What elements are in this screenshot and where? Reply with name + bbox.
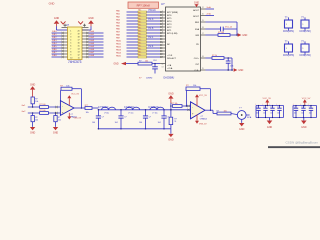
svg-text:GND: GND: [30, 83, 36, 86]
filter inductor L1: [102, 107, 116, 114]
svg-text:R1k: R1k: [138, 52, 141, 54]
svg-text:8: 8: [162, 32, 163, 34]
power port GND decoupling bank A: [267, 118, 273, 129]
resistor R inverting input stage2: [172, 103, 191, 108]
svg-text:51: 51: [174, 121, 176, 123]
svg-text:9: 9: [162, 43, 163, 45]
filter shunt capacitor 2: [115, 109, 127, 130]
svg-text:2mA: 2mA: [207, 12, 212, 15]
svg-text:L? 10u: L? 10u: [104, 112, 109, 114]
U2 right pin row 7 wire to ground: [201, 68, 234, 71]
decoupling bank B rails: [293, 105, 317, 118]
svg-text:C?153C: C?153C: [124, 106, 135, 109]
svg-text:22: 22: [202, 7, 204, 9]
svg-text:U?: U?: [161, 2, 165, 6]
svg-text:CON(CH4): CON(CH4): [299, 55, 310, 57]
designator U1: [66, 24, 70, 27]
svg-text:GND: GND: [30, 132, 36, 135]
svg-text:C?: C?: [102, 117, 104, 119]
svg-text:RP? 10Kx8: RP? 10Kx8: [137, 4, 151, 8]
resistor R 1k on U2 pin row 6: [201, 55, 233, 70]
svg-text:104: 104: [256, 113, 259, 115]
capacitor on U2 row 6 node: [226, 57, 234, 70]
svg-text:GND: GND: [88, 17, 94, 20]
resistor R to ground line1: [31, 113, 38, 122]
pin cross marks right of U1: [82, 24, 89, 28]
svg-text:DB7: DB7: [52, 52, 57, 54]
DAC U2 body: [166, 7, 201, 71]
svg-text:10k: 10k: [86, 112, 89, 114]
svg-text:104: 104: [270, 113, 273, 115]
filter inductor L3: [150, 107, 164, 114]
svg-text:DIN+EXT: DIN+EXT: [167, 58, 177, 60]
decoupling capacitor B2: [300, 104, 306, 119]
RCA output jack T1: [237, 107, 252, 119]
svg-text:C?: C?: [124, 117, 126, 119]
svg-text:BIT7 (MSB): BIT7 (MSB): [167, 12, 178, 14]
svg-text:104: 104: [158, 122, 161, 124]
svg-text:3: 3: [162, 17, 163, 19]
resistor R on U2 pin row 5: [201, 32, 238, 37]
svg-text:PA10: PA10: [116, 39, 122, 42]
svg-text:6: 6: [70, 46, 71, 48]
svg-text:R1k: R1k: [138, 49, 141, 51]
svg-text:DB1: DB1: [52, 34, 57, 36]
svg-text:18: 18: [77, 37, 79, 39]
svg-text:+CLK: +CLK: [167, 55, 173, 57]
svg-text:104: 104: [309, 113, 312, 115]
resistor R bias vertical: [31, 97, 38, 107]
svg-text:L? 10u: L? 10u: [128, 112, 133, 114]
svg-text:104: 104: [92, 122, 95, 124]
svg-text:104: 104: [230, 65, 233, 67]
U1 right pin wire row 8: [82, 51, 104, 55]
svg-text:11: 11: [162, 57, 164, 59]
svg-text:7: 7: [162, 29, 163, 31]
svg-text:104: 104: [294, 113, 297, 115]
net label CLK: [153, 60, 158, 62]
svg-text:DA4: DA4: [90, 42, 95, 45]
svg-text:+CLA: +CLA: [167, 67, 173, 70]
svg-text:P2.1: P2.1: [149, 37, 154, 39]
filter inductor L2: [126, 107, 140, 114]
svg-text:GND: GND: [238, 70, 243, 72]
svg-text:12MHz: 12MHz: [146, 78, 152, 80]
svg-text:BOUT: BOUT: [193, 16, 200, 18]
svg-text:19: 19: [77, 34, 79, 36]
connector CON(CH1): [283, 17, 294, 33]
svg-text:DA0: DA0: [90, 30, 95, 33]
U2 left pin numbers: [162, 11, 164, 69]
resistor column row 7: [116, 27, 166, 31]
svg-text:NC: NC: [167, 44, 171, 46]
svg-text:104: 104: [277, 113, 280, 115]
U1 left pin wire row 4: [52, 40, 68, 43]
net label input 1: [21, 105, 26, 107]
svg-text:AOUT: AOUT: [193, 9, 200, 12]
U2 right pin row 2 wire 2mA: [201, 12, 215, 15]
pin cross marks op-amp U4 inputs: [187, 105, 189, 111]
svg-text:104: 104: [115, 122, 118, 124]
U2 right pin names: [193, 9, 200, 72]
decoupling capacitor A1: [255, 104, 261, 119]
decoupling capacitor A4: [276, 104, 282, 119]
svg-text:PA12: PA12: [116, 45, 122, 48]
svg-text:R1k: R1k: [138, 55, 141, 57]
U1 right pin wire row 9: [82, 54, 104, 58]
svg-text:5: 5: [162, 23, 163, 25]
resistor R to ground line2: [54, 113, 61, 122]
power chevron VEE right: [78, 21, 83, 24]
svg-text:VCC_A: VCC_A: [225, 25, 232, 28]
svg-text:P3CLK: P3CLK: [149, 10, 157, 12]
svg-text:17: 17: [202, 33, 204, 35]
svg-text:C?: C?: [149, 117, 151, 119]
power port GND below rail: [168, 129, 174, 142]
power chevron VEE left: [61, 21, 66, 24]
svg-text:C?: C?: [294, 106, 296, 108]
svg-text:DB6: DB6: [52, 49, 57, 51]
U1 left pin wire row 3: [52, 37, 68, 40]
part label 74HC573 under U1: [68, 60, 82, 64]
filter shunt capacitor 4: [158, 109, 169, 130]
svg-text:DA7: DA7: [90, 51, 95, 54]
svg-text:DB3: DB3: [52, 40, 57, 42]
svg-text:FSA: FSA: [195, 28, 200, 31]
pin cross marks left of U1: [62, 24, 68, 28]
svg-text:R? 100: R? 100: [39, 110, 45, 112]
svg-text:R? 100: R? 100: [39, 104, 45, 106]
U2 right pin row 1 wire 2mA: [201, 6, 215, 9]
svg-text:GND: GND: [242, 35, 247, 37]
svg-text:GND: GND: [301, 126, 307, 129]
net label input 2: [21, 111, 26, 113]
U1 left pin wire row 1: [52, 31, 68, 34]
no-ERC directive box RP1: [128, 2, 159, 8]
resistor R series 2: [39, 110, 48, 115]
svg-text:7: 7: [70, 49, 71, 51]
svg-text:10k: 10k: [145, 60, 148, 62]
svg-text:VCC_5V: VCC_5V: [71, 94, 79, 96]
svg-text:104: 104: [139, 122, 142, 124]
U1 left pin wire row 5: [52, 43, 68, 46]
decoupling capacitor B1: [293, 104, 299, 119]
svg-text:DA2: DA2: [90, 36, 95, 39]
svg-text:P1.6: P1.6: [149, 28, 154, 30]
svg-text:CLK+: CLK+: [194, 58, 200, 60]
U2 left pin names: [167, 12, 178, 70]
svg-text:VCC_5V: VCC_5V: [199, 95, 207, 97]
net label GND top-left: [49, 2, 55, 6]
wire from left power port to U1 pin: [57, 26, 68, 30]
termination resistor R: [169, 117, 177, 124]
svg-text:2mA: 2mA: [207, 6, 212, 9]
watermark underline bar: [268, 146, 320, 148]
power VCC op-amp U4: [195, 94, 207, 106]
svg-text:15: 15: [77, 46, 79, 48]
resistor column row 8: [116, 30, 166, 34]
svg-text:VSS_5V: VSS_5V: [74, 118, 82, 120]
svg-text:BIT0 (LSB): BIT0 (LSB): [167, 33, 178, 35]
svg-text:5: 5: [70, 43, 71, 45]
svg-text:PD: PD: [196, 44, 199, 46]
power port GND below right resistor: [53, 122, 59, 135]
U1 left pin wire row 7: [52, 49, 68, 52]
power VCC op-amp U3A: [67, 94, 79, 105]
wire input line 2: [28, 112, 61, 114]
resistor column row 9: [116, 33, 166, 37]
svg-text:6: 6: [162, 26, 163, 28]
svg-text:16: 16: [77, 43, 79, 45]
svg-text:DB2: DB2: [52, 37, 57, 39]
feedback wire stage2: [186, 89, 212, 111]
svg-text:R1k: R1k: [138, 34, 141, 36]
resistor column row 6: [116, 24, 166, 28]
svg-text:10k: 10k: [66, 85, 69, 87]
resistor column row 15: [116, 51, 166, 55]
power port GND above U2: [194, 1, 200, 7]
svg-text:CLK: CLK: [153, 60, 158, 62]
svg-text:DA5: DA5: [90, 45, 95, 48]
svg-text:C?: C?: [309, 106, 311, 108]
svg-text:12: 12: [77, 55, 79, 57]
svg-text:9: 9: [70, 55, 71, 57]
svg-text:104: 104: [263, 113, 266, 115]
svg-text:GND: GND: [239, 128, 245, 131]
svg-text:10k: 10k: [58, 119, 61, 121]
resistor column row 10: [116, 36, 166, 40]
U1 left pin wire row 9: [52, 55, 68, 58]
resistor column row 3: [116, 15, 166, 19]
watermark text: [285, 141, 318, 145]
svg-text:GND: GND: [194, 1, 200, 4]
svg-text:VCC_5V: VCC_5V: [302, 98, 311, 100]
svg-text:14: 14: [77, 49, 79, 51]
connector CON(CH4): [299, 41, 310, 57]
U1 right pin wire row 6: [82, 45, 104, 49]
power VCC decoupling bank B: [302, 98, 311, 106]
svg-text:19: 19: [202, 20, 204, 22]
output resistor R stage1: [74, 105, 98, 114]
svg-text:L? 10u: L? 10u: [152, 112, 157, 114]
U1 right pin wire row 2: [82, 33, 104, 37]
svg-text:R1k: R1k: [138, 16, 141, 18]
svg-text:16: 16: [202, 56, 204, 58]
svg-text:74HC573: 74HC573: [68, 60, 82, 64]
power port GND right of row 7: [234, 68, 244, 72]
svg-text:1: 1: [162, 11, 163, 13]
U1 right pin wire row 5: [82, 42, 104, 46]
filter section label C?153C: [124, 106, 135, 109]
power port GND above R bias: [30, 83, 36, 97]
svg-text:R1k: R1k: [138, 40, 141, 42]
power port GND below left resistor: [30, 122, 36, 135]
svg-text:-: -: [62, 105, 63, 108]
resistor column row 16: [116, 54, 166, 58]
output resistor R stage2: [205, 110, 237, 115]
resistor R on U2 clock line: [138, 60, 166, 65]
svg-text:PA15: PA15: [116, 54, 122, 57]
svg-text:10k: 10k: [193, 85, 196, 87]
U2 right pin row 3 long wire: [201, 20, 238, 35]
filter shunt capacitor 1: [92, 109, 104, 130]
resistor column row 4: [116, 18, 166, 22]
power port GND left of U1: [54, 17, 60, 26]
svg-text:C?: C?: [256, 106, 258, 108]
filter main wire: [98, 109, 190, 111]
wire from right power port to U1 pin: [82, 26, 91, 30]
svg-text:R1k: R1k: [138, 31, 141, 33]
svg-text:GND: GND: [168, 93, 174, 96]
svg-text:R?: R?: [139, 60, 141, 62]
svg-text:GND: GND: [168, 139, 174, 142]
svg-text:CLK-: CLK-: [194, 70, 199, 72]
resistor column row 2: [116, 12, 166, 16]
svg-text:PA14: PA14: [116, 51, 122, 54]
svg-text:C?: C?: [263, 106, 265, 108]
svg-text:10k: 10k: [35, 119, 38, 121]
svg-text:OPA604: OPA604: [200, 118, 207, 121]
svg-text:C?: C?: [166, 117, 168, 119]
op-amp U4: [191, 102, 207, 121]
svg-text:GND: GND: [267, 126, 273, 129]
svg-text:GND: GND: [49, 2, 55, 6]
power port GND decoupling bank B: [301, 118, 307, 129]
capacitor under clock line: [152, 63, 158, 74]
U1 right pin wire row 4: [82, 39, 104, 43]
svg-text:DB4: DB4: [52, 43, 57, 45]
filter section label C?253C: [148, 106, 159, 109]
svg-text:R1k: R1k: [138, 10, 141, 12]
svg-text:15: 15: [202, 68, 204, 70]
svg-text:C?: C?: [71, 114, 73, 116]
svg-text:R? 10k: R? 10k: [218, 32, 224, 34]
svg-text:10: 10: [162, 54, 164, 56]
svg-text:13: 13: [77, 52, 79, 54]
svg-text:GND: GND: [54, 17, 60, 20]
resistor column row 12: [116, 42, 166, 46]
decoupling bank A rails: [256, 105, 284, 118]
svg-text:10k: 10k: [35, 101, 38, 103]
svg-text:R?: R?: [174, 118, 176, 120]
svg-text:DA6: DA6: [90, 48, 95, 51]
pin cross marks op-amp U3A inputs: [55, 106, 57, 114]
resistor column row 1: [116, 9, 166, 13]
svg-text:17: 17: [77, 40, 79, 42]
filter shunt capacitor 3: [139, 109, 151, 130]
svg-text:CON(CH1): CON(CH1): [283, 31, 294, 33]
resistor R series 1: [39, 104, 48, 109]
svg-text:13: 13: [162, 67, 164, 69]
wire input line 1: [28, 106, 61, 108]
svg-text:18: 18: [202, 27, 204, 29]
svg-text:P1.3: P1.3: [149, 19, 154, 21]
U1 right pin stub row 0: [82, 29, 89, 31]
svg-text:DB8: DB8: [52, 55, 57, 57]
U1 right pin wire row 3: [82, 36, 104, 40]
svg-text:1: 1: [70, 31, 71, 33]
svg-text:R1k: R1k: [138, 46, 141, 48]
svg-text:GND: GND: [113, 63, 118, 65]
value labels under crystal cluster: [139, 78, 152, 80]
svg-text:R1k: R1k: [138, 13, 141, 15]
svg-text:R1k: R1k: [138, 43, 141, 45]
power port GND below output jack: [239, 119, 245, 131]
capacitor C on U2 pin row 4: [201, 25, 238, 31]
svg-text:DB5: DB5: [52, 46, 57, 48]
svg-text:R? 10k: R? 10k: [172, 103, 178, 105]
svg-text:3: 3: [70, 37, 71, 39]
resistor column row 11: [116, 39, 166, 43]
svg-text:4: 4: [162, 20, 163, 22]
power port GND right of U1: [88, 17, 94, 26]
feedback resistor R stage2: [186, 85, 200, 90]
svg-text:P2.4: P2.4: [149, 46, 154, 48]
decoupling capacitor B3: [308, 104, 314, 119]
svg-text:RCA: RCA: [247, 116, 252, 119]
svg-text:CON(CH2): CON(CH2): [299, 31, 310, 33]
latch U1 body: [68, 27, 83, 60]
svg-text:DA3: DA3: [90, 39, 95, 42]
svg-text:R1k: R1k: [138, 37, 141, 39]
svg-text:C?: C?: [301, 106, 303, 108]
svg-text:PA11: PA11: [116, 42, 122, 45]
U1 left pin wire row 2: [52, 34, 68, 37]
U1 right pin wire row 1: [82, 30, 104, 34]
svg-text:DA8: DA8: [90, 54, 95, 57]
svg-text:REF: REF: [195, 22, 200, 24]
svg-text:R??: R??: [85, 105, 88, 107]
filter ground rail: [98, 128, 170, 130]
svg-text:-: -: [192, 106, 193, 109]
power port GND left-pointing at U2 clock: [113, 62, 138, 66]
power VCC decoupling bank A: [263, 98, 272, 106]
power port GND above termination: [168, 93, 174, 129]
svg-text:2: 2: [70, 34, 71, 36]
svg-text:R1k: R1k: [138, 22, 141, 24]
power VSS op-amp U4: [195, 115, 207, 126]
svg-text:20: 20: [202, 14, 204, 16]
U1 right pin wire row 7: [82, 48, 104, 52]
U1 left pin wire row 8: [52, 52, 68, 55]
decoupling capacitor A3: [269, 104, 275, 119]
sheet background: [0, 0, 320, 150]
feedback wire stage1: [61, 89, 83, 109]
svg-text:BW: BW: [196, 35, 199, 37]
svg-text:104: 104: [301, 113, 304, 115]
svg-text:DA1: DA1: [90, 33, 95, 36]
connector CON(CH3): [283, 41, 294, 57]
svg-text:R? 1k: R? 1k: [212, 55, 217, 57]
svg-text:C?: C?: [277, 106, 279, 108]
svg-text:CSDN @BigBangBoom: CSDN @BigBangBoom: [285, 141, 318, 145]
connector CON(CH2): [299, 17, 310, 33]
U1 left pin wire row 6: [52, 46, 68, 49]
svg-text:+CA: +CA: [167, 64, 172, 67]
svg-text:PA13: PA13: [116, 48, 122, 51]
svg-text:CON(CH3): CON(CH3): [283, 55, 294, 57]
designator U2: [161, 2, 165, 6]
svg-text:4: 4: [70, 40, 71, 42]
svg-text:C?: C?: [201, 116, 203, 118]
svg-text:C?253C: C?253C: [148, 106, 159, 109]
svg-text:8: 8: [70, 52, 71, 54]
svg-text:C?053C: C?053C: [98, 106, 109, 109]
svg-text:VSS_5V: VSS_5V: [199, 123, 207, 125]
svg-text:DAC908U: DAC908U: [164, 77, 175, 80]
svg-text:DB0: DB0: [52, 31, 57, 33]
resistor column row 5: [116, 21, 166, 25]
